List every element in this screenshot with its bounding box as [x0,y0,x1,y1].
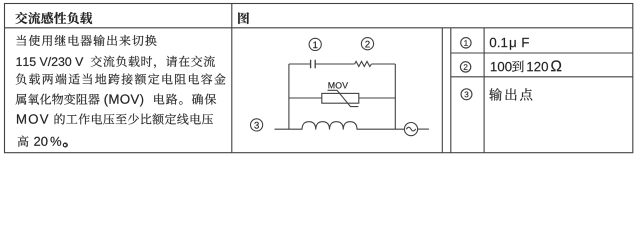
wire: top rail left segment to capacitor [289,63,310,65]
legend callout circle 1 [461,38,471,48]
wire: middle branch right of MOV [359,97,396,99]
legend callout circle 2 [460,62,470,72]
label MOV [329,82,349,88]
capacitor C (callout 1) plates [311,60,316,68]
varistor MOV diagonal stroke [328,90,359,106]
table column divider 1 [231,4,233,153]
callout circle 1 [309,38,321,50]
resistor R (callout 2) zigzag [355,61,372,66]
varistor MOV body [322,93,359,103]
callout 3 digit [254,122,258,129]
wire: stub right of AC source [418,128,429,130]
table column divider 2 [441,28,443,153]
table header bottom rule [5,27,633,29]
legend row divider 1 [451,52,633,54]
wire: top rail between capacitor and resistor [316,63,355,65]
wire: bottom rail inductor to AC source [357,128,404,130]
AC source circle [404,123,417,136]
wire: top rail right of resistor [371,63,395,65]
callout circle 3 (output point) [251,119,263,131]
callout 1 digit [313,42,317,49]
wire: bottom rail from callout 3 to inductor [275,128,303,130]
AC source sine wave [406,127,415,131]
legend row divider 2 [451,76,633,78]
wire: left vertical rail [288,64,290,129]
legend callout circle 3 [461,89,472,100]
wire: right vertical rail [394,64,396,129]
inductor L coil [302,122,357,130]
table outer border [5,4,633,153]
callout circle 2 [361,38,373,50]
legend table column divider [483,28,485,153]
legend table left border [450,28,452,153]
wire: middle branch left of MOV [289,97,322,99]
callout 2 digit [365,41,369,48]
